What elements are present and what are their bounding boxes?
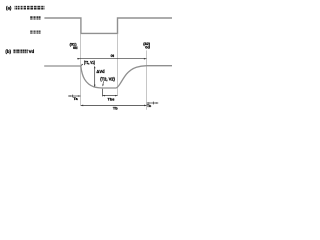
reference line B (switch-off instant) [117, 34, 119, 96]
supply voltage waveform (b): baseline, dip, recovery, flat [44, 66, 172, 88]
svg-text:0d: 0d [73, 45, 78, 50]
svg-text:ΔVd: ΔVd [96, 69, 105, 74]
svg-text:Tb: Tb [113, 106, 118, 111]
svg-text:Tbs: Tbs [108, 97, 115, 102]
svg-text:(T2, V2): (T2, V2) [100, 77, 115, 82]
dimension Tbs between T2 tick and line B [103, 89, 118, 97]
svg-text:(a): (a) [6, 6, 12, 11]
svg-text:(T1, V1): (T1, V1) [84, 60, 95, 65]
dimension arrow dVd [94, 66, 96, 87]
leader arrowhead to dip start [81, 64, 83, 67]
label: OFF operation [30, 16, 41, 19]
dimension line 0t from line A to line C [77, 58, 146, 60]
svg-text:Vd: Vd [29, 49, 35, 54]
svg-text:Tc: Tc [147, 103, 152, 108]
svg-text:Ta: Ta [73, 96, 78, 101]
svg-text:(b): (b) [5, 49, 11, 54]
svg-text:0t: 0t [111, 53, 115, 58]
switch state waveform (a): high-low-high [44, 18, 172, 33]
reference line C (recovery complete) [146, 50, 148, 109]
section (b) header: (b) supply voltage Vd [5, 49, 34, 54]
section (a) header: (a) switch operation state [6, 6, 44, 11]
label: ON operation [30, 30, 41, 33]
dimension Tb between line A and line C [81, 105, 147, 107]
dimension Tc at line C [147, 102, 159, 105]
reference line A (switch-on instant) [80, 34, 82, 106]
svg-text:0d: 0d [145, 45, 150, 50]
dimension Ta at line A [68, 95, 81, 98]
leader arrow to curve minimum [102, 81, 104, 86]
